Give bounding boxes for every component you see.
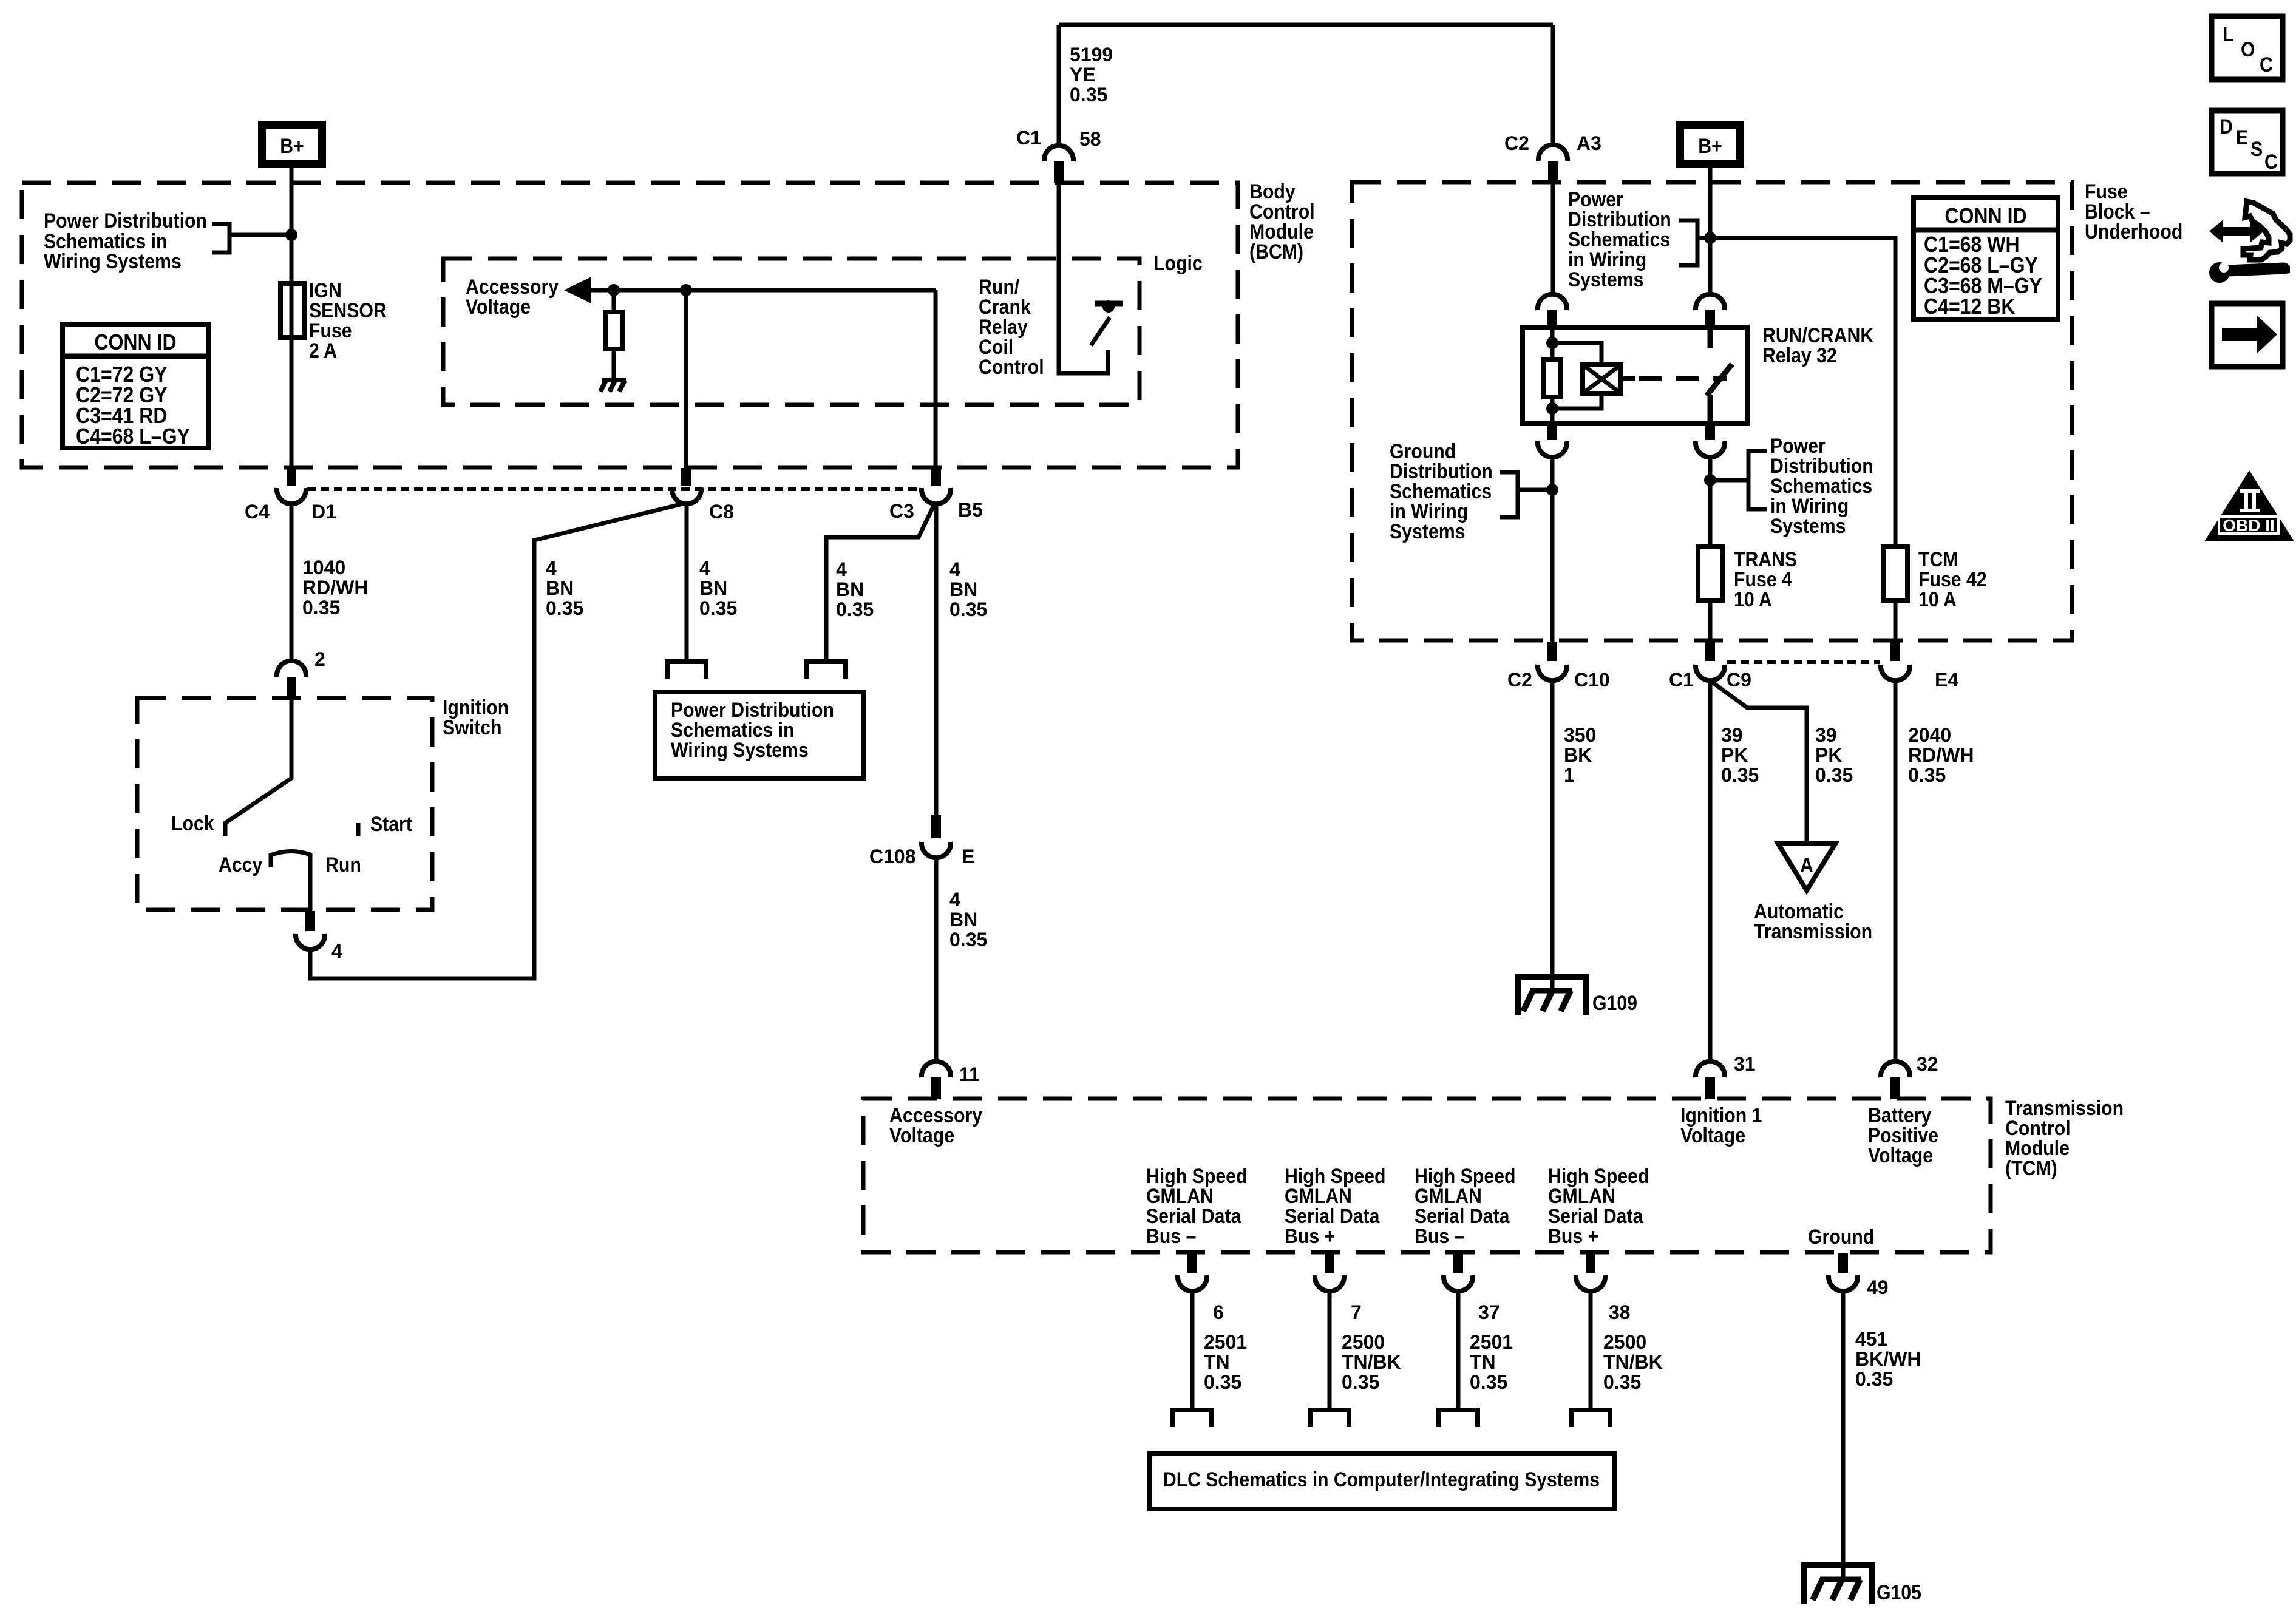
svg-text:C: C [2260,53,2273,76]
icon OBD II triangle [2204,470,2294,541]
svg-text:Power Distribution: Power Distribution [44,209,207,232]
svg-text:A3: A3 [1577,132,1601,154]
svg-text:C4=68 L–GY: C4=68 L–GY [76,424,190,449]
svg-text:BN: BN [546,577,574,599]
svg-text:1: 1 [1564,764,1575,786]
wire BCM accessory out to C8 [684,290,688,469]
wire C2/A3 down to relay coil [1551,183,1555,295]
svg-text:2501: 2501 [1470,1331,1513,1353]
svg-text:O: O [2241,38,2255,61]
ground internal BCM [600,380,626,392]
svg-text:0.35: 0.35 [546,597,583,619]
wire 350 BK 1 to G109 [1552,680,1596,977]
node junction C8 tap [680,284,692,296]
svg-text:Wiring Systems: Wiring Systems [44,250,182,273]
svg-text:0.35: 0.35 [1855,1368,1893,1390]
svg-text:2040: 2040 [1908,724,1951,746]
svg-text:4: 4 [836,558,847,580]
wire 2500 TN/BK 0.35 (pin 38) [1591,1291,1663,1409]
reference box DLC Schematics [1150,1454,1615,1509]
svg-text:C10: C10 [1574,669,1610,691]
connector pin 6 (TCM exit) [1178,1253,1224,1323]
label Accessory Voltage (TCM) [889,1104,982,1147]
label Body Control Module (BCM) [1249,180,1315,263]
svg-text:E: E [2236,126,2248,149]
wire relay switch output [1708,457,1713,547]
svg-text:Logic: Logic [1153,252,1203,275]
svg-text:D: D [2220,115,2233,138]
wire C3 branch to power distribution [826,503,935,660]
wire TCM fuse to E4 [1894,600,1898,642]
svg-text:1040: 1040 [302,557,345,578]
connector relay coil top [1538,294,1567,328]
svg-text:C1: C1 [1669,669,1694,691]
svg-text:32: 32 [1917,1053,1938,1075]
svg-text:DLC Schematics in Computer/Int: DLC Schematics in Computer/Integrating S… [1163,1468,1600,1491]
svg-text:TN: TN [1204,1351,1230,1373]
wire 2040 RD/WH 0.35 battery positive [1895,680,1974,1062]
wire 4 BN 0.35 B5 down to C108 [936,504,987,815]
wire 4 BN 0.35 from C8 to power distribution [687,504,737,660]
connector C4 D1 (BCM exit) [245,468,336,523]
svg-text:37: 37 [1478,1301,1500,1323]
svg-text:0.35: 0.35 [302,597,340,619]
icon LOC box [2212,16,2283,80]
connector C1 pin 58 (BCM entry) [1016,127,1101,183]
node junction on B+ feed [285,229,297,241]
terminal bracket C8 branch [667,662,706,679]
wire 5199 YE 0.35 top run [1059,25,1553,146]
CONN ID table (fuse block connectors) [1914,198,2058,320]
connector pin 11 (TCM entry) [922,1062,980,1099]
ground G109 [1518,977,1637,1015]
connector pin 49 (TCM exit) [1829,1253,1889,1298]
battery feed B+ terminal 1 [262,125,322,164]
label High Speed GMLAN Serial Data Bus + (pin 38) [1548,1165,1649,1248]
svg-text:C3: C3 [889,500,914,522]
label Ground Distribution Schematics in Wiring Systems [1390,440,1493,543]
label Run/Crank Relay Coil Control [979,276,1044,379]
svg-text:350: 350 [1564,724,1596,746]
svg-text:Voltage: Voltage [889,1124,954,1147]
module box left dashed (power distribution cell) [22,183,1238,467]
svg-text:4: 4 [949,889,960,910]
svg-text:2500: 2500 [1342,1331,1385,1353]
svg-text:C4=12 BK: C4=12 BK [1924,294,2016,319]
battery feed B+ terminal 2 [1680,125,1741,164]
node junction resistor tap [608,284,620,296]
contact Accy [219,853,271,876]
svg-text:Voltage: Voltage [1868,1144,1933,1167]
label RUN/CRANK Relay 32 [1762,324,1874,367]
svg-text:Lock: Lock [171,812,214,835]
svg-text:OBD II: OBD II [2223,516,2275,535]
svg-text:C2: C2 [1504,132,1529,154]
svg-text:0.35: 0.35 [1342,1371,1379,1393]
svg-text:CONN ID: CONN ID [1944,203,2026,228]
svg-text:Run: Run [325,853,361,876]
svg-text:L: L [2223,23,2234,46]
wire label 4 BN 0.35 (run feed) [546,557,583,619]
node junction coil top [1546,337,1558,349]
svg-text:Ground: Ground [1808,1225,1874,1249]
wire 2501 TN 0.35 (pin 6) [1192,1291,1247,1409]
connector C8 (BCM exit) [672,468,734,523]
wire relay coil ground branch [1550,457,1555,642]
wire run/crank relay coil control output [1059,183,1108,373]
wire dotted connector tie line right [1727,660,1880,664]
svg-text:39: 39 [1721,724,1743,746]
wire accessory voltage bus with arrow [564,277,936,303]
connector pin 31 (TCM entry) [1696,1053,1756,1099]
label Power Distribution Schematics in Wiring Systems (right) [1770,435,1873,538]
svg-text:C108: C108 [869,846,916,867]
label Power Distribution Schematics in Wiring Systems (left) [44,209,207,273]
label Fuse Block - Underhood [2085,180,2182,243]
svg-text:B+: B+ [1698,135,1722,158]
svg-text:451: 451 [1855,1328,1887,1350]
relay coil resistor [1544,328,1561,424]
node junction ground distribution tap [1546,484,1558,496]
connector pin 32 (TCM entry) [1881,1053,1938,1099]
svg-text:C8: C8 [709,501,734,523]
fuse IGN SENSOR 2A [280,279,387,362]
relay box RUN/CRANK Relay 32 [1523,327,1747,424]
svg-text:38: 38 [1609,1301,1631,1323]
switch logic driver (BCM) [1091,300,1123,345]
wire BCM accessory out to C3/B5 [934,290,938,469]
label High Speed GMLAN Serial Data Bus - (pin 37) [1415,1165,1516,1248]
wire B+ feed to TCM fuse [1710,238,1895,547]
off-page arrow A automatic transmission [1754,844,1872,943]
node junction power distribution tap [1704,474,1716,486]
svg-text:4: 4 [949,558,960,580]
svg-text:BK/WH: BK/WH [1855,1348,1921,1370]
icon forward arrow box [2212,303,2283,367]
ignition switch dashed box [137,698,432,910]
icon DESC box [2212,110,2283,174]
svg-text:0.35: 0.35 [1070,84,1107,106]
svg-text:D1: D1 [311,501,336,523]
connector relay switch bottom [1696,424,1725,457]
svg-text:TN: TN [1470,1351,1496,1373]
svg-text:Systems: Systems [1390,520,1466,543]
label Accessory Voltage (BCM) [466,276,559,319]
wire bracket ground distribution [1500,472,1552,517]
svg-text:31: 31 [1734,1053,1756,1075]
svg-text:C1: C1 [1016,127,1041,149]
svg-text:4: 4 [546,557,557,579]
svg-text:BK: BK [1564,744,1592,766]
switch wiper ignition [225,697,291,836]
module box BCM logic dashed [443,259,1140,405]
svg-text:Switch: Switch [443,716,502,739]
reference box Power Distribution Schematics in Wiring Systems [655,692,864,779]
module box TCM dashed [863,1099,1991,1252]
node junction B+ distribution [1704,232,1716,244]
svg-text:BN: BN [949,578,977,600]
svg-text:0.35: 0.35 [699,597,737,619]
wire 1040 RD/WH 0.35 [291,504,368,662]
connector E4 (fuse block exit) [1881,642,1958,691]
svg-text:10 A: 10 A [1734,588,1772,611]
svg-text:11: 11 [959,1063,980,1085]
svg-text:B5: B5 [958,499,983,521]
svg-text:0.35: 0.35 [949,598,987,620]
svg-text:2500: 2500 [1603,1331,1646,1353]
svg-text:7: 7 [1351,1301,1362,1323]
svg-text:4: 4 [699,557,710,579]
svg-text:Underhood: Underhood [2085,220,2182,243]
CONN ID table (BCM connectors) [63,324,208,449]
ground G105 [1804,1565,1921,1604]
svg-text:BN: BN [699,577,727,599]
svg-text:S: S [2250,138,2263,161]
svg-text:TN/BK: TN/BK [1342,1351,1401,1373]
svg-text:10 A: 10 A [1918,588,1957,611]
svg-text:Bus –: Bus – [1146,1225,1196,1248]
svg-text:0.35: 0.35 [1721,764,1759,786]
svg-text:0.35: 0.35 [1815,764,1853,786]
svg-text:A: A [1800,854,1813,877]
svg-text:0.35: 0.35 [836,598,874,620]
svg-text:TN/BK: TN/BK [1603,1351,1663,1373]
svg-text:0.35: 0.35 [1603,1371,1641,1393]
svg-text:Start: Start [370,813,412,836]
wire bracket power distribution right [1710,451,1767,509]
terminal bracket pin 38 wire [1571,1410,1610,1427]
svg-text:PK: PK [1721,744,1748,766]
svg-text:Voltage: Voltage [1680,1124,1745,1147]
wire bracket power distribution to B+ wire [1679,220,1710,265]
wire 39 PK 0.35 ignition 1 voltage [1710,680,1759,1062]
svg-text:39: 39 [1815,724,1837,746]
svg-text:Bus +: Bus + [1285,1225,1335,1248]
svg-text:G105: G105 [1877,1581,1921,1604]
connector pin 4 ignition switch output [296,911,342,962]
svg-text:2501: 2501 [1204,1331,1247,1353]
svg-text:CONN ID: CONN ID [94,330,176,354]
svg-text:RD/WH: RD/WH [1908,744,1974,766]
resistor pull-down (BCM logic) [605,290,622,380]
svg-text:4: 4 [331,940,342,962]
svg-text:(BCM): (BCM) [1249,240,1303,263]
connector C108 E in-line [869,815,974,867]
fuse TRANS Fuse 4 10A [1698,547,1797,611]
svg-text:B+: B+ [280,135,304,158]
svg-text:Bus +: Bus + [1548,1225,1598,1248]
svg-text:C9: C9 [1727,669,1751,691]
wire bracket to Power Distribution reference [212,224,289,253]
wire relay actuator dashed link [1621,376,1635,381]
connector pin 2 ignition switch [277,648,325,697]
svg-text:RD/WH: RD/WH [302,577,368,598]
label Ignition 1 Voltage [1680,1104,1762,1147]
wire B+ feed down to ignition switch [290,168,294,469]
connector pin 37 (TCM exit) [1444,1253,1500,1323]
wire ignition run feed to BCM C8 [310,503,685,978]
connector relay switch top [1696,294,1725,328]
wire B+ down to relay switch [1708,168,1713,294]
svg-text:Accy: Accy [219,853,262,876]
connector relay coil bottom [1538,424,1567,457]
svg-text:2: 2 [314,648,325,670]
svg-text:Systems: Systems [1568,268,1644,291]
svg-text:6: 6 [1213,1301,1224,1323]
svg-text:PK: PK [1815,744,1842,766]
label Battery Positive Voltage [1868,1104,1938,1167]
svg-text:2 A: 2 A [309,339,337,362]
connector C1 C9 (fuse block exit) [1669,642,1751,691]
label High Speed GMLAN Serial Data Bus + (pin 7) [1285,1165,1386,1248]
connector C2 pin A3 (fuse block entry) [1504,132,1601,183]
svg-text:Control: Control [979,356,1044,379]
svg-text:BN: BN [949,909,977,931]
svg-text:5199: 5199 [1070,44,1113,66]
svg-text:0.35: 0.35 [949,929,987,951]
label Ignition Switch [443,696,509,739]
svg-text:0.35: 0.35 [1908,764,1946,786]
node junction coil bottom [1546,402,1558,415]
module box Fuse Block Underhood dashed [1352,182,2072,640]
svg-text:49: 49 [1867,1276,1889,1298]
wire 39 PK 0.35 branch to automatic transmission [1711,682,1853,842]
label High Speed GMLAN Serial Data Bus - (pin 6) [1146,1165,1248,1248]
svg-text:0.35: 0.35 [1204,1371,1241,1393]
label Power Distribution Schematics in Wiring Systems (fuse block) [1568,188,1671,291]
connector pin 38 (TCM exit) [1576,1253,1631,1323]
fuse TCM Fuse 42 10A [1883,547,1987,611]
wire 4 BN 0.35 C108 to TCM pin 11 [936,858,987,1062]
contact Start [358,813,412,836]
svg-text:Relay 32: Relay 32 [1762,344,1837,367]
relay coil winding symbol [1552,343,1621,408]
svg-text:BN: BN [836,578,864,600]
svg-text:Voltage: Voltage [466,296,531,319]
svg-text:(TCM): (TCM) [2005,1157,2057,1180]
wire 2500 TN/BK 0.35 (pin 7) [1330,1291,1401,1409]
terminal bracket pin 37 wire [1439,1410,1478,1427]
svg-text:58: 58 [1079,128,1101,150]
wire dotted connector tie line [307,487,919,491]
contact Run with curve [272,852,361,912]
wire 451 BK/WH 0.35 to G105 [1843,1291,1921,1579]
svg-text:YE: YE [1070,64,1096,86]
connector C3 B5 (BCM exit) [889,468,983,522]
svg-text:Wiring Systems: Wiring Systems [671,739,809,762]
svg-text:E4: E4 [1935,669,1958,691]
connector C2 C10 (fuse block exit) [1507,642,1610,691]
terminal bracket C3 branch [807,662,846,679]
svg-text:0.35: 0.35 [1470,1371,1507,1393]
icon vehicle service double arrow [2209,202,2290,283]
svg-text:E: E [962,846,974,867]
svg-text:C: C [2264,151,2278,174]
svg-text:Bus –: Bus – [1415,1225,1464,1248]
wire TRANS fuse to C1/C9 [1708,600,1713,642]
svg-text:G109: G109 [1592,992,1637,1015]
svg-text:C4: C4 [245,501,270,523]
svg-text:Transmission: Transmission [1754,920,1872,943]
label Transmission Control Module (TCM) [2005,1097,2124,1180]
terminal bracket pin 6 wire [1173,1410,1212,1427]
svg-text:Systems: Systems [1770,515,1846,538]
wire 2501 TN 0.35 (pin 37) [1458,1291,1513,1409]
switch relay contact [1707,328,1732,424]
connector pin 7 (TCM exit) [1315,1253,1362,1323]
terminal bracket pin 7 wire [1310,1410,1349,1427]
svg-text:C2: C2 [1507,669,1532,691]
